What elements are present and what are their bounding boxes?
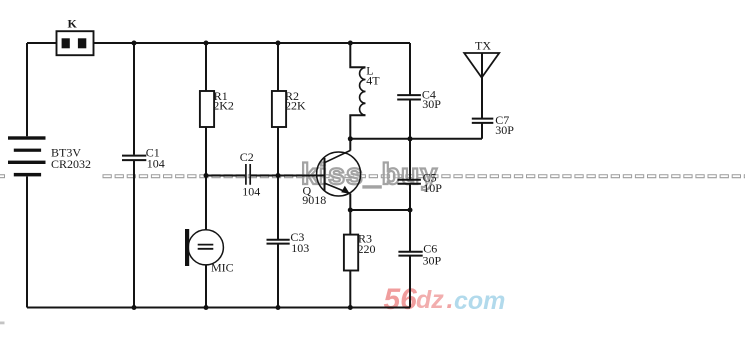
svg-text:.: . — [447, 286, 454, 314]
svg-text:30P: 30P — [423, 253, 442, 267]
svg-text:dz: dz — [416, 286, 444, 314]
svg-text:com: com — [454, 287, 505, 315]
svg-text:56: 56 — [384, 283, 418, 316]
svg-text:CR2032: CR2032 — [51, 157, 91, 171]
svg-text:10P: 10P — [423, 181, 442, 195]
svg-text:220: 220 — [358, 242, 376, 256]
svg-text:4T: 4T — [366, 74, 380, 88]
svg-text:TX: TX — [475, 38, 491, 52]
svg-text:MIC: MIC — [211, 261, 234, 275]
svg-text:30P: 30P — [422, 97, 441, 111]
svg-text:104: 104 — [242, 185, 260, 199]
svg-text:30P: 30P — [495, 123, 514, 137]
svg-text:C2: C2 — [240, 150, 254, 164]
svg-text:22K: 22K — [285, 99, 306, 113]
svg-text:9018: 9018 — [302, 193, 326, 207]
svg-text:K: K — [68, 17, 78, 31]
svg-text:103: 103 — [291, 241, 309, 255]
svg-text:104: 104 — [147, 157, 165, 171]
svg-text:2K2: 2K2 — [213, 99, 234, 113]
